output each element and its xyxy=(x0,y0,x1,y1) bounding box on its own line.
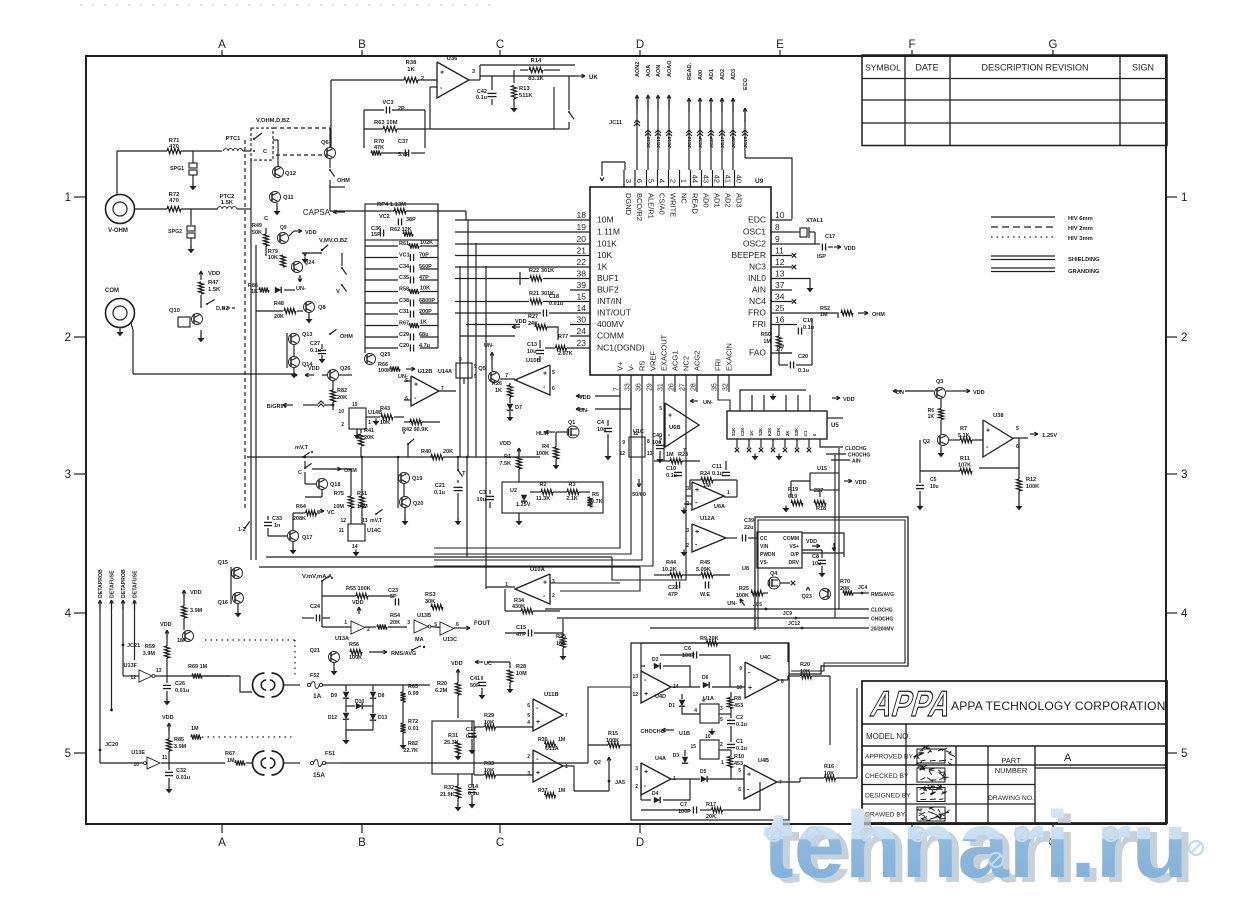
svg-text:6: 6 xyxy=(527,703,530,709)
svg-text:U36: U36 xyxy=(447,56,458,62)
svg-text:D5: D5 xyxy=(700,769,707,775)
svg-text:1.25V: 1.25V xyxy=(516,502,531,508)
svg-text:R31: R31 xyxy=(448,733,458,739)
svg-text:Q3: Q3 xyxy=(936,379,943,385)
svg-text:UK: UK xyxy=(589,75,598,81)
svg-text:6: 6 xyxy=(659,436,662,442)
svg-text:DATE: DATE xyxy=(915,63,938,73)
svg-text:Q9: Q9 xyxy=(280,225,287,231)
svg-text:BUF1: BUF1 xyxy=(597,273,619,283)
svg-text:1M: 1M xyxy=(558,737,565,743)
svg-text:6: 6 xyxy=(738,787,741,793)
svg-text:R49: R49 xyxy=(252,223,262,229)
svg-text:U13A: U13A xyxy=(335,636,349,642)
svg-text:12: 12 xyxy=(775,257,785,267)
svg-text:JC9: JC9 xyxy=(783,611,792,617)
svg-text:R58: R58 xyxy=(399,287,409,293)
svg-text:3.9M: 3.9M xyxy=(174,744,187,750)
svg-text:C24: C24 xyxy=(310,604,321,610)
svg-text:DGND: DGND xyxy=(624,193,633,216)
svg-text:3: 3 xyxy=(459,357,462,363)
svg-text:13: 13 xyxy=(647,451,653,457)
svg-text:GRANDING: GRANDING xyxy=(1068,269,1100,275)
svg-text:EDC: EDC xyxy=(748,215,766,225)
svg-text:12: 12 xyxy=(632,692,638,698)
svg-text:1: 1 xyxy=(344,620,347,626)
svg-text:9: 9 xyxy=(775,234,780,244)
svg-text:VDD: VDD xyxy=(855,480,867,486)
svg-text:AON: AON xyxy=(656,65,662,77)
svg-text:V: V xyxy=(402,430,406,436)
svg-text:U38: U38 xyxy=(993,413,1004,419)
svg-text:6: 6 xyxy=(635,179,644,183)
svg-text:U13F: U13F xyxy=(124,663,138,669)
svg-text:301K: 301K xyxy=(541,268,554,274)
svg-text:R13: R13 xyxy=(519,86,530,92)
svg-text:R43: R43 xyxy=(380,406,390,412)
svg-text:U10A: U10A xyxy=(530,567,546,573)
svg-text:15: 15 xyxy=(577,292,587,302)
svg-text:Q20: Q20 xyxy=(413,501,423,507)
svg-text:+: + xyxy=(543,371,547,378)
svg-text:U12B: U12B xyxy=(418,369,433,375)
svg-text:U8: U8 xyxy=(742,566,749,572)
svg-text:11: 11 xyxy=(775,246,784,256)
svg-text:1A: 1A xyxy=(313,693,322,700)
svg-text:453: 453 xyxy=(734,703,743,709)
svg-text:VDD: VDD xyxy=(579,395,591,401)
svg-text:C2: C2 xyxy=(736,715,743,721)
svg-text:SIGN: SIGN xyxy=(1132,63,1154,73)
svg-text:208K: 208K xyxy=(293,516,306,522)
svg-text:C17: C17 xyxy=(825,234,835,240)
svg-text:2: 2 xyxy=(552,593,555,599)
svg-text:D: D xyxy=(636,39,644,51)
svg-text:R37: R37 xyxy=(538,788,548,794)
svg-text:Q1: Q1 xyxy=(568,420,575,426)
svg-text:CHOCHG: CHOCHG xyxy=(641,729,665,735)
svg-text:COMM: COMM xyxy=(597,331,624,341)
svg-text:PTC1: PTC1 xyxy=(226,136,242,142)
svg-text:R75: R75 xyxy=(334,491,344,497)
svg-text:3: 3 xyxy=(552,579,555,585)
svg-text:AD2: AD2 xyxy=(720,69,726,80)
svg-text:U11A: U11A xyxy=(545,746,559,752)
svg-text:VREF: VREF xyxy=(649,351,658,371)
svg-text:VC1: VC1 xyxy=(399,253,410,259)
svg-text:6: 6 xyxy=(456,622,459,628)
svg-text:JC18: JC18 xyxy=(646,136,652,148)
svg-text:6: 6 xyxy=(552,386,555,392)
svg-text:1M: 1M xyxy=(191,726,199,732)
svg-text:44: 44 xyxy=(691,175,700,183)
svg-text:WRITE: WRITE xyxy=(669,193,678,217)
svg-text:NC2: NC2 xyxy=(682,356,691,371)
svg-text:24: 24 xyxy=(577,326,587,336)
svg-text:INT/OUT: INT/OUT xyxy=(597,308,631,318)
svg-text:VS+: VS+ xyxy=(789,544,799,550)
svg-text:OHM: OHM xyxy=(872,312,885,318)
svg-text:A: A xyxy=(1064,752,1072,764)
svg-text:AD3: AD3 xyxy=(731,69,737,80)
svg-text:619: 619 xyxy=(788,494,797,500)
svg-text:+: + xyxy=(695,529,699,536)
svg-text:+: + xyxy=(747,772,751,779)
svg-text:1: 1 xyxy=(1181,192,1187,204)
svg-text:AIN: AIN xyxy=(852,459,861,465)
svg-text:SPG2: SPG2 xyxy=(168,229,182,235)
svg-text:2.1K: 2.1K xyxy=(566,496,578,502)
svg-text:D7: D7 xyxy=(515,405,522,411)
svg-text:100K: 100K xyxy=(349,655,362,661)
svg-text:BUF2: BUF2 xyxy=(597,285,619,295)
svg-text:Q25: Q25 xyxy=(380,352,390,358)
svg-text:VDD: VDD xyxy=(843,397,855,403)
svg-text:20/200MV: 20/200MV xyxy=(871,627,894,633)
svg-text:9: 9 xyxy=(739,666,742,672)
svg-text:4: 4 xyxy=(658,179,667,183)
svg-text:U10B: U10B xyxy=(526,358,541,364)
svg-text:20: 20 xyxy=(577,234,587,244)
svg-text:OSC2: OSC2 xyxy=(743,239,766,249)
svg-text:C3K: C3K xyxy=(776,428,781,436)
svg-text:3: 3 xyxy=(527,771,530,777)
svg-text:C27: C27 xyxy=(310,341,320,347)
svg-text:JC19: JC19 xyxy=(743,136,749,148)
svg-text:R48: R48 xyxy=(274,301,284,307)
svg-text:102K: 102K xyxy=(420,240,433,246)
svg-text:10K: 10K xyxy=(268,255,278,261)
svg-text:O/P: O/P xyxy=(790,552,799,558)
svg-text:D1: D1 xyxy=(669,703,676,709)
svg-text:C1: C1 xyxy=(803,430,808,436)
svg-text:U13B: U13B xyxy=(417,613,431,619)
svg-text:W.E: W.E xyxy=(700,592,710,598)
svg-text:2: 2 xyxy=(527,754,530,760)
svg-text:10K: 10K xyxy=(380,420,390,426)
svg-text:+: + xyxy=(644,691,648,698)
svg-text:AD3: AD3 xyxy=(735,193,744,208)
svg-text:R32: R32 xyxy=(444,785,454,791)
svg-text:AD0: AD0 xyxy=(702,193,711,208)
svg-text:+: + xyxy=(440,69,444,76)
svg-text:13: 13 xyxy=(156,668,162,674)
svg-text:V+: V+ xyxy=(616,361,625,371)
svg-text:R77: R77 xyxy=(558,334,568,340)
svg-text:5: 5 xyxy=(738,768,741,774)
svg-text:VS-: VS- xyxy=(760,560,769,566)
svg-text:5: 5 xyxy=(720,717,723,723)
svg-text:VDD: VDD xyxy=(973,390,985,396)
svg-text:14: 14 xyxy=(577,303,587,313)
svg-text:0.1u: 0.1u xyxy=(798,368,809,374)
svg-text:Q23: Q23 xyxy=(802,594,812,600)
svg-text:JC15: JC15 xyxy=(667,136,673,148)
svg-text:C20: C20 xyxy=(399,343,409,349)
svg-text:C: C xyxy=(496,837,504,849)
svg-text:4: 4 xyxy=(694,708,697,714)
svg-text:5: 5 xyxy=(552,370,555,376)
svg-text:43: 43 xyxy=(702,175,711,183)
svg-text:15: 15 xyxy=(690,744,696,750)
svg-text:Q11: Q11 xyxy=(283,195,294,201)
svg-text:Q12: Q12 xyxy=(285,171,296,177)
svg-text:6: 6 xyxy=(405,396,408,402)
svg-text:1K: 1K xyxy=(251,289,258,295)
svg-text:INT/IN: INT/IN xyxy=(597,296,622,306)
svg-text:U4C: U4C xyxy=(760,655,771,661)
svg-text:7: 7 xyxy=(565,713,568,719)
svg-text:1K: 1K xyxy=(597,262,608,272)
svg-text:5: 5 xyxy=(1181,748,1187,760)
svg-text:3: 3 xyxy=(635,766,638,772)
svg-text:10: 10 xyxy=(338,409,344,415)
svg-text:R55 100K: R55 100K xyxy=(346,586,371,592)
svg-text:+: + xyxy=(668,413,672,420)
svg-text:+: + xyxy=(748,685,752,692)
svg-text:C34: C34 xyxy=(399,264,410,270)
svg-text:10u: 10u xyxy=(930,484,939,490)
svg-text:U5: U5 xyxy=(831,423,839,429)
svg-text:SHIELDING: SHIELDING xyxy=(1068,257,1100,263)
svg-text:2: 2 xyxy=(367,627,370,633)
svg-text:C31: C31 xyxy=(399,309,409,315)
svg-text:HLM: HLM xyxy=(536,431,548,437)
svg-text:Q10: Q10 xyxy=(169,308,180,314)
svg-text:3: 3 xyxy=(686,486,689,492)
svg-text:19: 19 xyxy=(577,222,587,232)
svg-text:3: 3 xyxy=(407,620,410,626)
svg-text:PART: PART xyxy=(1001,756,1021,765)
svg-text:0.1u: 0.1u xyxy=(736,746,747,752)
svg-text:ACG2: ACG2 xyxy=(693,351,702,371)
svg-text:R64: R64 xyxy=(296,504,307,510)
svg-text:5: 5 xyxy=(1016,426,1019,432)
svg-text:5: 5 xyxy=(527,713,530,719)
svg-text:VDD: VDD xyxy=(305,230,317,236)
svg-text:CC: CC xyxy=(760,536,768,542)
svg-text:D,BZ: D,BZ xyxy=(216,306,229,312)
svg-text:Q5: Q5 xyxy=(478,366,487,372)
svg-text:22.7K: 22.7K xyxy=(403,748,418,754)
svg-text:5: 5 xyxy=(659,406,662,412)
svg-text:2: 2 xyxy=(65,332,71,344)
svg-text:7.5K: 7.5K xyxy=(499,461,511,467)
svg-text:1M: 1M xyxy=(666,452,674,458)
svg-text:1M: 1M xyxy=(558,788,565,794)
svg-text:UN: UN xyxy=(896,390,904,396)
svg-text:R65: R65 xyxy=(408,684,418,690)
svg-text:10K: 10K xyxy=(597,250,612,260)
svg-text:0.1u: 0.1u xyxy=(468,791,479,797)
svg-text:PWDN: PWDN xyxy=(760,552,776,558)
svg-text:V-: V- xyxy=(627,363,636,371)
svg-text:100K: 100K xyxy=(536,451,549,457)
svg-text:C12: C12 xyxy=(466,727,476,733)
svg-text:100K: 100K xyxy=(1026,484,1039,490)
svg-text:VDD: VDD xyxy=(208,271,220,277)
svg-text:R22: R22 xyxy=(529,268,539,274)
svg-text:R82: R82 xyxy=(337,388,347,394)
svg-text:DETAPROB: DETAPROB xyxy=(121,569,127,598)
svg-text:C7: C7 xyxy=(680,802,687,808)
svg-text:UN-: UN- xyxy=(727,601,737,607)
svg-text:R21: R21 xyxy=(529,291,539,297)
svg-text:A: A xyxy=(218,39,226,51)
svg-text:U9: U9 xyxy=(755,178,764,185)
svg-text:UN-: UN- xyxy=(296,286,306,292)
svg-text:41: 41 xyxy=(724,175,733,183)
svg-text:NUMBER: NUMBER xyxy=(995,766,1028,775)
svg-text:VC2: VC2 xyxy=(379,214,390,220)
svg-text:NC1(DGND): NC1(DGND) xyxy=(597,343,645,353)
svg-text:453: 453 xyxy=(734,761,743,767)
svg-text:10u: 10u xyxy=(527,349,536,355)
svg-text:16: 16 xyxy=(775,315,785,325)
svg-text:D6: D6 xyxy=(702,675,709,681)
svg-text:5: 5 xyxy=(474,374,477,380)
svg-text:25: 25 xyxy=(775,303,785,313)
svg-text:R82: R82 xyxy=(408,741,418,747)
svg-text:U12A: U12A xyxy=(700,516,716,522)
svg-text:C8: C8 xyxy=(812,554,819,560)
svg-text:FRI: FRI xyxy=(714,359,723,371)
svg-text:R63 10M: R63 10M xyxy=(374,120,398,126)
svg-text:1n: 1n xyxy=(274,523,281,529)
svg-text:14: 14 xyxy=(352,544,358,550)
svg-text:23: 23 xyxy=(577,338,587,348)
svg-text:VDD: VDD xyxy=(352,600,364,606)
svg-text:101K: 101K xyxy=(597,239,617,249)
svg-text:Q2: Q2 xyxy=(594,760,601,766)
svg-text:EXACOUT: EXACOUT xyxy=(660,334,669,371)
svg-text:30K: 30K xyxy=(425,599,435,605)
svg-text:+: + xyxy=(536,719,540,726)
svg-text:R42 90.9K: R42 90.9K xyxy=(402,427,428,433)
svg-text:VDD: VDD xyxy=(190,590,202,596)
svg-text:U14C: U14C xyxy=(367,528,381,534)
svg-text:4: 4 xyxy=(1181,608,1188,620)
svg-text:38: 38 xyxy=(577,269,587,279)
svg-text:400MV: 400MV xyxy=(597,319,624,329)
svg-text:AD2: AD2 xyxy=(724,193,733,208)
svg-text:A: A xyxy=(218,837,226,849)
svg-text:2K: 2K xyxy=(785,431,790,436)
svg-text:K2K: K2K xyxy=(767,428,772,436)
svg-text:0.01u: 0.01u xyxy=(549,301,563,307)
svg-text:C: C xyxy=(496,39,504,51)
svg-text:NC4: NC4 xyxy=(749,296,766,306)
svg-text:U15: U15 xyxy=(817,466,827,472)
svg-text:10: 10 xyxy=(775,210,785,220)
svg-text:R61: R61 xyxy=(399,241,409,247)
svg-text:10.2K: 10.2K xyxy=(662,567,677,573)
svg-text:NC: NC xyxy=(680,193,689,204)
svg-text:mV,T: mV,T xyxy=(370,518,383,524)
svg-text:100K: 100K xyxy=(736,593,749,599)
svg-text:2: 2 xyxy=(1181,332,1187,344)
svg-text:22: 22 xyxy=(577,257,587,267)
svg-text:R38: R38 xyxy=(406,60,417,66)
svg-text:V,MV,O,BZ: V,MV,O,BZ xyxy=(319,238,348,244)
svg-text:38P: 38P xyxy=(406,217,416,223)
svg-text:JC21: JC21 xyxy=(127,643,140,649)
svg-text:21: 21 xyxy=(577,246,587,256)
svg-text:mV,T: mV,T xyxy=(295,445,309,451)
svg-text:1M: 1M xyxy=(177,638,185,644)
svg-text:JC11: JC11 xyxy=(609,120,622,126)
svg-text:C21: C21 xyxy=(435,483,445,489)
svg-text:DESCRIPTION REVISION: DESCRIPTION REVISION xyxy=(981,63,1088,73)
svg-text:C26: C26 xyxy=(175,681,185,687)
svg-text:ACG1: ACG1 xyxy=(671,351,680,371)
svg-text:DETAFUSE: DETAFUSE xyxy=(110,570,116,598)
svg-text:Q19: Q19 xyxy=(412,476,422,482)
svg-text:FS1: FS1 xyxy=(325,751,335,757)
svg-text:U4D: U4D xyxy=(655,694,666,700)
svg-text:DETAFUSE: DETAFUSE xyxy=(133,570,139,598)
svg-text:R18: R18 xyxy=(816,506,826,512)
svg-text:10K: 10K xyxy=(420,286,430,292)
svg-text:HIV 2mm: HIV 2mm xyxy=(1068,226,1093,232)
svg-text:U11B: U11B xyxy=(544,692,559,698)
svg-text:DRV: DRV xyxy=(789,560,800,566)
svg-text:4: 4 xyxy=(65,608,72,620)
svg-text:Q4: Q4 xyxy=(770,571,778,577)
svg-text:R33: R33 xyxy=(484,761,494,767)
svg-text:AOA: AOA xyxy=(646,65,652,77)
svg-text:R50: R50 xyxy=(761,332,771,338)
svg-text:Q17: Q17 xyxy=(302,535,312,541)
svg-text:20K: 20K xyxy=(706,814,716,820)
svg-text:1M: 1M xyxy=(820,312,828,318)
svg-text:T: T xyxy=(462,471,466,477)
svg-text:21.9K: 21.9K xyxy=(440,792,455,798)
svg-text:HIV 6mm: HIV 6mm xyxy=(1068,216,1093,222)
svg-text:Q16: Q16 xyxy=(218,600,228,606)
svg-text:AOAO: AOAO xyxy=(667,60,673,77)
svg-text:S2K: S2K xyxy=(758,428,763,436)
svg-text:UN-: UN- xyxy=(484,343,494,349)
svg-text:D12: D12 xyxy=(328,715,337,721)
svg-text:AD1: AD1 xyxy=(713,193,722,208)
svg-text:7: 7 xyxy=(779,780,782,786)
svg-text:BCO/R2: BCO/R2 xyxy=(635,193,644,221)
svg-text:R47: R47 xyxy=(208,280,219,286)
svg-text:42: 42 xyxy=(713,175,722,183)
svg-text:C41: C41 xyxy=(470,676,480,682)
svg-text:V: V xyxy=(336,289,340,295)
svg-text:D8: D8 xyxy=(378,693,385,699)
svg-text:CHOCHG: CHOCHG xyxy=(871,617,893,623)
svg-text:1K: 1K xyxy=(928,414,935,420)
svg-text:R40: R40 xyxy=(421,449,431,455)
svg-text:50/60: 50/60 xyxy=(632,492,646,498)
svg-text:NC3: NC3 xyxy=(749,262,766,272)
svg-text:1K: 1K xyxy=(407,67,415,73)
svg-text:Q2: Q2 xyxy=(923,439,930,445)
svg-text:D: D xyxy=(636,837,644,849)
svg-text:11: 11 xyxy=(339,528,345,534)
svg-text:ECO: ECO xyxy=(743,77,749,90)
svg-text:D9: D9 xyxy=(331,693,338,699)
svg-text:F52: F52 xyxy=(310,673,319,679)
svg-text:2: 2 xyxy=(421,76,424,82)
svg-text:0.01: 0.01 xyxy=(408,726,419,732)
svg-text:VIN: VIN xyxy=(760,544,769,550)
svg-text:U4B: U4B xyxy=(758,758,769,764)
svg-text:ISP: ISP xyxy=(817,254,826,260)
